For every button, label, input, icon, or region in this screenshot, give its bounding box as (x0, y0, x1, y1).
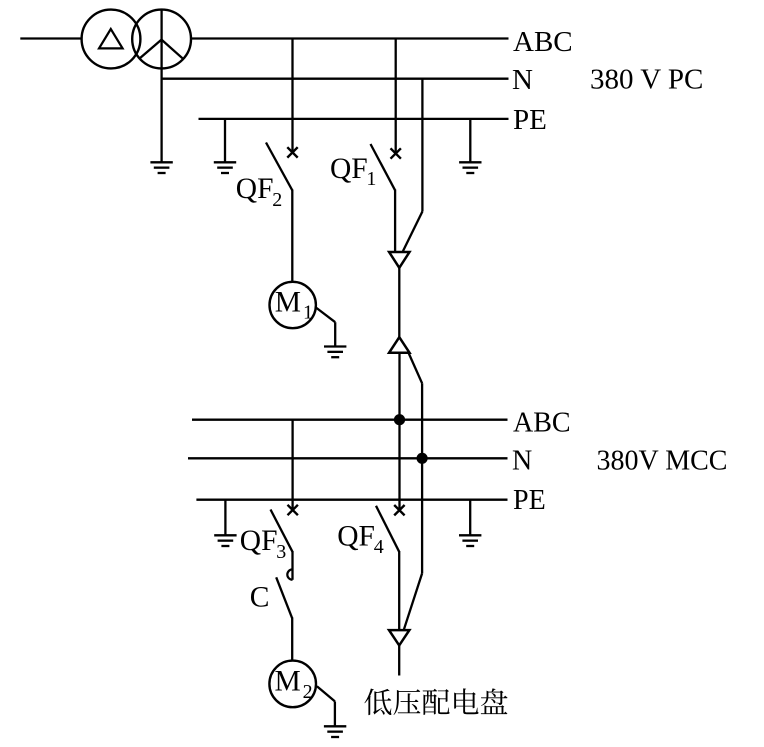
svg-text:ABC: ABC (513, 407, 571, 438)
svg-text:C: C (250, 581, 270, 613)
svg-text:M: M (275, 666, 301, 698)
svg-text:1: 1 (366, 168, 376, 190)
svg-text:QF: QF (337, 520, 375, 552)
svg-text:M: M (275, 287, 301, 319)
svg-text:QF: QF (240, 525, 278, 557)
svg-text:N: N (512, 445, 532, 476)
svg-text:QF: QF (330, 153, 368, 185)
svg-text:380 V PC: 380 V PC (590, 64, 703, 96)
svg-text:QF: QF (236, 173, 274, 205)
svg-text:3: 3 (276, 541, 286, 563)
svg-text:2: 2 (272, 189, 282, 211)
svg-text:N: N (512, 64, 533, 96)
svg-text:PE: PE (513, 485, 546, 516)
svg-text:380V MCC: 380V MCC (597, 446, 728, 477)
svg-text:1: 1 (303, 302, 313, 324)
svg-text:4: 4 (374, 536, 384, 558)
svg-text:ABC: ABC (513, 26, 573, 58)
svg-text:PE: PE (513, 104, 547, 136)
svg-text:2: 2 (303, 681, 313, 703)
